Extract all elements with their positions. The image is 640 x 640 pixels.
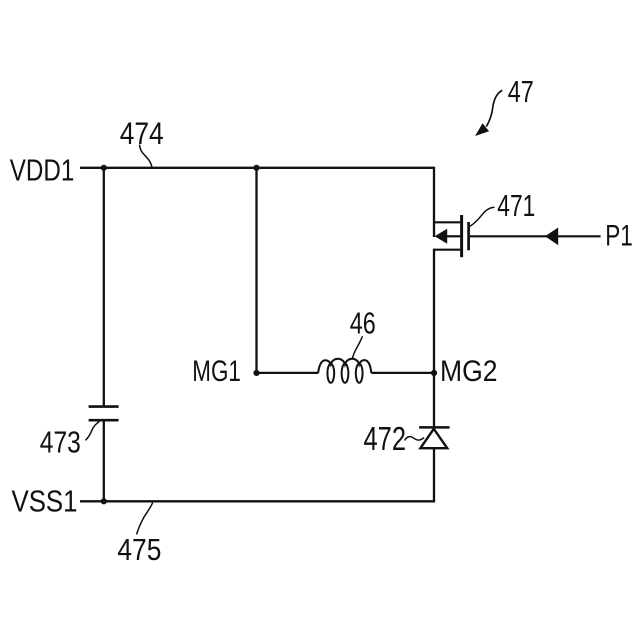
capacitor 473 — [89, 407, 119, 421]
svg-text:P1: P1 — [605, 219, 633, 252]
node MG2 — [431, 370, 437, 376]
gate wire to P1 — [470, 235, 601, 237]
label MG1 — [192, 355, 241, 388]
label 47 — [508, 74, 534, 109]
svg-text:471: 471 — [497, 188, 535, 223]
node MG1 — [253, 370, 259, 376]
svg-text:MG1: MG1 — [192, 355, 241, 388]
diode 472 — [419, 427, 450, 448]
wire VDD rail down to transistor source — [433, 167, 435, 237]
svg-text:475: 475 — [117, 533, 161, 567]
wire capacitor down to VSS rail — [103, 420, 105, 501]
wire MG2 down to diode — [433, 373, 435, 428]
arrow leader for 47 — [475, 90, 502, 136]
label 475 — [117, 533, 161, 567]
svg-text:47: 47 — [508, 74, 534, 109]
label 471 — [497, 188, 535, 223]
node junction top-left — [101, 165, 107, 171]
svg-text:MG2: MG2 — [440, 355, 498, 388]
wire inductor to MG2 — [371, 372, 434, 374]
svg-text:474: 474 — [120, 115, 164, 151]
label MG2 — [440, 355, 498, 388]
wire branch down from top rail to MG1 — [255, 168, 257, 373]
wire transistor drain down to MG2 — [433, 249, 435, 373]
label 46 — [350, 306, 376, 340]
inductor 46 coil — [318, 359, 371, 383]
leader line for 475 — [137, 503, 153, 535]
svg-text:473: 473 — [40, 426, 81, 460]
leader line for 472 — [405, 437, 425, 441]
leader line for 474 — [140, 145, 152, 168]
svg-text:472: 472 — [364, 420, 407, 457]
label 472 — [364, 420, 407, 457]
wire bottom rail 475 — [80, 500, 435, 502]
arrowhead on gate wire — [545, 228, 558, 246]
wire left rail down to capacitor — [103, 168, 105, 407]
transistor 471 (p-channel MOSFET) — [434, 215, 469, 257]
wire diode down to VSS rail — [433, 448, 435, 501]
wire MG1 to inductor — [257, 372, 319, 374]
svg-text:46: 46 — [350, 306, 376, 340]
svg-text:VDD1: VDD1 — [10, 153, 75, 188]
leader line for 46 — [352, 336, 362, 359]
leader line for 471 — [470, 207, 495, 226]
leader line for 473 — [85, 421, 99, 440]
node junction top-middle — [253, 165, 259, 171]
label 474 — [120, 115, 164, 151]
label 473 — [40, 426, 81, 460]
label P1 — [605, 219, 633, 252]
wire top rail 474 — [80, 167, 434, 169]
node junction bottom-left — [101, 498, 107, 504]
label VSS1 — [12, 484, 78, 519]
svg-text:VSS1: VSS1 — [12, 484, 78, 519]
label VDD1 — [10, 153, 75, 188]
